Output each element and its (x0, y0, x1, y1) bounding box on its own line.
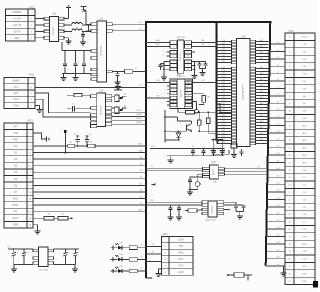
svg-text:P4.5: P4.5 (222, 43, 226, 45)
ground left pair below U11 (68, 39, 70, 43)
svg-text:POWER: POWER (12, 11, 21, 14)
ic U18 label (206, 219, 218, 222)
svg-text:AD4: AD4 (260, 138, 263, 141)
svg-text:STB: STB (13, 132, 18, 135)
svg-text:R8: R8 (207, 97, 209, 99)
svg-text:a2: a2 (277, 50, 279, 52)
svg-text:74HC573: 74HC573 (176, 37, 186, 39)
power flag +5V at U11 out (64, 6, 71, 19)
ic U12 body (97, 21, 106, 82)
svg-text:T2: T2 (152, 244, 154, 246)
svg-text:P3.2: P3.2 (222, 106, 226, 108)
wire U16 out 1 (225, 166, 267, 168)
ic U12 label (99, 18, 104, 21)
svg-text:AD2: AD2 (260, 72, 263, 75)
wire regulator input rail (8, 248, 33, 250)
capacitor C28 right of U14 (197, 62, 201, 69)
svg-text:RD: RD (303, 229, 307, 231)
svg-text:RX2: RX2 (150, 200, 154, 202)
svg-text:P3.2: P3.2 (222, 130, 226, 132)
svg-text:a28: a28 (277, 242, 280, 244)
connector JP13 label (27, 119, 33, 123)
bottom ground rail left (14, 263, 33, 265)
svg-text:P4.5: P4.5 (222, 115, 226, 117)
svg-text:ALE: ALE (303, 243, 308, 246)
svg-text:a8: a8 (277, 94, 279, 96)
ground JP15 (156, 269, 162, 277)
svg-text:LT1085CM: LT1085CM (101, 46, 103, 56)
wire U15 right loop to transistor (192, 102, 203, 114)
resistor for DS3 (129, 268, 146, 273)
svg-text:D1: D1 (140, 164, 142, 166)
svg-text:4: 4 (173, 93, 174, 95)
svg-text:1: 1 (173, 82, 174, 84)
svg-text:14: 14 (187, 65, 189, 67)
svg-text:P0.1: P0.1 (222, 55, 226, 57)
wire net KBCLK (112, 110, 146, 112)
wire net MSCLK (112, 118, 146, 120)
junction mark left margin (152, 184, 156, 186)
svg-text:U16: U16 (211, 161, 216, 164)
ic U13 right pins (105, 95, 111, 126)
svg-text:a22: a22 (277, 198, 280, 200)
ic U15 outline (170, 79, 193, 109)
wire U14 right lower group (192, 61, 207, 73)
regulator U17 label (39, 270, 49, 272)
wire U15 left stubs upper (164, 86, 170, 95)
wire U16 out 2 (225, 169, 267, 171)
svg-text:DAT: DAT (14, 92, 19, 95)
svg-text:CLK: CLK (14, 86, 19, 89)
svg-text:P1.4: P1.4 (222, 88, 226, 90)
ic U14 body (178, 40, 184, 73)
connector JP13 table (4, 123, 33, 228)
svg-text:13: 13 (187, 86, 189, 88)
svg-text:P5.0: P5.0 (222, 124, 226, 126)
ground U14 left (161, 75, 167, 81)
ic U15 label (176, 76, 185, 78)
capacitor C16 to ground (115, 71, 121, 85)
capacitor C29 right of U14 (203, 62, 207, 69)
wire JP12 pin4 bend to U13 (35, 99, 91, 117)
ground cap B left of U18 (176, 214, 182, 221)
svg-text:P7.6: P7.6 (222, 118, 226, 120)
svg-text:ACK: ACK (13, 197, 18, 200)
svg-text:AD0: AD0 (260, 78, 263, 81)
connector JP11 table (6, 9, 36, 41)
resistor R16 on row4 (88, 142, 95, 148)
svg-text:P7.6: P7.6 (222, 94, 226, 96)
capacitor C34 left of U18 (168, 204, 172, 213)
svg-text:COM: COM (178, 239, 184, 242)
ic U15 right pins (185, 81, 192, 107)
bottom ground rail right (54, 263, 76, 265)
led DS1 (111, 243, 130, 250)
connector JP12 table (4, 78, 35, 109)
crystal circuit below U16 (188, 174, 217, 189)
svg-text:DS275: DS275 (213, 168, 215, 175)
crystal cap bottom rail (213, 150, 229, 154)
svg-text:a10: a10 (277, 109, 280, 111)
ground decoupling row (168, 156, 174, 163)
svg-text:a15: a15 (277, 146, 280, 148)
wire JP13 row2 bend to ground stub (33, 133, 50, 142)
filter U11 label (52, 13, 57, 16)
wire U15 left in 2 (146, 96, 170, 98)
svg-text:AD1: AD1 (156, 43, 160, 46)
svg-text:a4: a4 (277, 64, 279, 66)
svg-text:+5V: +5V (7, 246, 11, 248)
svg-text:4: 4 (163, 54, 164, 56)
svg-text:5: 5 (173, 98, 174, 100)
svg-text:P0.1: P0.1 (222, 79, 226, 81)
svg-text:BUS: BUS (302, 37, 307, 39)
svg-text:a19: a19 (277, 175, 280, 177)
svg-text:P2.7: P2.7 (222, 49, 226, 51)
svg-text:a25: a25 (277, 220, 280, 222)
svg-text:P0.1: P0.1 (222, 103, 226, 105)
svg-text:R3: R3 (90, 142, 92, 144)
svg-text:AD0: AD0 (156, 39, 160, 42)
svg-text:GND: GND (13, 104, 19, 107)
svg-text:SLCT: SLCT (12, 217, 19, 220)
svg-text:13: 13 (187, 69, 189, 71)
filter U11 left pins (44, 17, 50, 39)
svg-text:CS1: CS1 (201, 80, 205, 82)
svg-text:7: 7 (173, 65, 174, 67)
svg-text:6: 6 (173, 101, 174, 103)
svg-text:10: 10 (187, 98, 189, 100)
svg-text:CTS: CTS (178, 265, 183, 268)
wire U14 right out 1 (192, 39, 217, 42)
resistor for DS2 (129, 256, 146, 261)
svg-text:6: 6 (173, 61, 174, 63)
svg-text:AFD: AFD (139, 150, 143, 153)
svg-text:GND: GND (302, 281, 307, 283)
svg-text:AD1: AD1 (260, 39, 263, 42)
ground JP16 bottom (281, 266, 287, 276)
wire U16 in 1 from divider (146, 166, 203, 168)
capacitor C27 under U14 left (159, 64, 165, 71)
resistor R8 right of U15 (192, 93, 209, 102)
capacitor C21 decoupling (74, 134, 80, 147)
ground JP12 pin5 (35, 105, 43, 112)
led DS2 (111, 254, 130, 261)
rail left of U12 middle (62, 42, 91, 51)
svg-text:74HC00: 74HC00 (176, 76, 185, 78)
ic U14 left pins (170, 41, 177, 71)
svg-text:AD3: AD3 (260, 57, 263, 60)
ic U16 right pins (218, 168, 224, 176)
svg-text:3: 3 (163, 51, 164, 53)
block divider vertical right (x=270..265 skewed) (266, 21, 271, 265)
wire JP11 pin5 to U11 (35, 37, 44, 39)
svg-text:XTAL: XTAL (213, 180, 217, 183)
wire U15 left stubs lower (167, 102, 171, 106)
svg-text:AD2: AD2 (260, 96, 263, 99)
svg-text:GND: GND (14, 37, 20, 40)
svg-text:a14: a14 (277, 138, 280, 140)
svg-text:2: 2 (173, 86, 174, 88)
ground rail left symbol (11, 265, 17, 273)
mcu bottom component box (231, 143, 237, 148)
wire U12 out A to divider (112, 22, 146, 24)
capacitor C24 electrolytic (22, 248, 29, 264)
capacitor C32 (211, 146, 215, 156)
svg-text:C2: C2 (74, 134, 76, 136)
wire mesh bottom (165, 139, 180, 141)
wire mesh out A (198, 130, 216, 132)
svg-text:MAX 202-1: MAX 202-1 (206, 219, 218, 222)
svg-text:a3: a3 (277, 57, 279, 59)
svg-text:RTS: RTS (178, 258, 183, 261)
svg-text:GND: GND (178, 271, 184, 274)
wire JP15 row4 to divider (146, 261, 161, 263)
svg-text:P5.0: P5.0 (222, 76, 226, 78)
svg-text:MAX202: MAX202 (211, 205, 214, 214)
wire U14 left stub 3 (163, 51, 170, 53)
mcu bottom ground (231, 148, 237, 158)
wire U14 right out 2 (192, 43, 217, 46)
wire U18 out stub (224, 209, 230, 211)
ic U13 left pins (91, 95, 97, 128)
net label +5V rail (7, 246, 11, 248)
svg-text:3: 3 (173, 89, 174, 91)
svg-text:a26: a26 (277, 227, 280, 229)
connector JP16 table (285, 33, 315, 285)
svg-text:D6: D6 (140, 196, 142, 198)
svg-text:D4: D4 (140, 183, 142, 185)
connector JP15 table (161, 236, 193, 275)
svg-text:+5V: +5V (303, 44, 307, 46)
ic U13 label (99, 90, 104, 93)
mcu U19 left pin boxes (232, 40, 237, 145)
ic U18 left pins (202, 201, 208, 215)
mcu U19 label (241, 36, 246, 39)
svg-text:2: 2 (173, 42, 174, 44)
svg-text:74HC573: 74HC573 (180, 52, 182, 61)
svg-text:P5.0: P5.0 (222, 100, 226, 102)
svg-text:AD0: AD0 (260, 102, 263, 105)
capacitor C33 (220, 146, 224, 156)
svg-text:C3: C3 (89, 134, 91, 136)
svg-text:16: 16 (187, 56, 189, 58)
svg-text:a1: a1 (277, 42, 279, 44)
capacitor C20 electrolytic vertical (60, 129, 66, 154)
svg-text:P3.2: P3.2 (222, 82, 226, 84)
svg-text:9: 9 (188, 101, 189, 103)
svg-text:RXD: RXD (178, 252, 183, 255)
ic U12 left pins (91, 23, 97, 81)
wire net KBDAT (112, 113, 146, 116)
svg-text:C6: C6 (202, 146, 204, 148)
connector JP15 label (162, 233, 168, 236)
svg-text:-12V IN: -12V IN (13, 30, 21, 33)
wire rail into U12 left upper (86, 24, 91, 31)
mcu left wires to divider (217, 40, 232, 144)
wire U14 left in 2 (146, 43, 170, 46)
svg-text:WR: WR (303, 236, 307, 238)
ground right of U18 (236, 212, 244, 220)
svg-text:JP16: JP16 (288, 30, 294, 33)
connector JP11 label (29, 5, 35, 9)
wire bundle JP13 rows 4-15 to divider (33, 150, 146, 212)
mcu U19 right pin boxes (250, 40, 256, 145)
svg-text:D5: D5 (140, 190, 142, 192)
wire U14 left in 1 (146, 39, 170, 42)
svg-text:18: 18 (187, 46, 189, 48)
svg-text:AD4: AD4 (260, 114, 263, 117)
wire U18 in 1 (146, 200, 202, 202)
capacitor CX1 below mcu (211, 140, 216, 156)
svg-text:BUSY: BUSY (12, 204, 19, 207)
pullup network R12 lower (112, 106, 127, 114)
decoupling rail top (150, 146, 224, 148)
wire mesh upper (165, 117, 178, 121)
ic U13 body (97, 93, 106, 127)
wire U12 pin to crystal Y1 (112, 71, 124, 73)
ground caps right of U14 (200, 69, 206, 76)
svg-text:AD0: AD0 (260, 126, 263, 129)
svg-text:A8: A8 (202, 39, 204, 42)
regulator U17 body (39, 247, 49, 267)
wire JP15 row3 to divider (146, 252, 161, 254)
svg-text:AD4: AD4 (260, 90, 263, 93)
svg-text:AD6: AD6 (260, 108, 263, 111)
svg-text:DS1: DS1 (119, 243, 123, 245)
capacitor C35 left of U18 (177, 204, 181, 213)
svg-text:AD6: AD6 (260, 132, 263, 135)
wire JP13 row4 with resistors to divider (33, 144, 146, 146)
capacitor C36 right of U18 (224, 202, 239, 211)
svg-text:TXD: TXD (178, 245, 183, 248)
mcu bottom capacitor (239, 149, 243, 156)
svg-text:AFD: AFD (13, 138, 18, 141)
wire JP11 pin3 to U11 (35, 24, 44, 26)
ground crystal (187, 190, 193, 196)
ic U16 left pins (203, 167, 210, 178)
svg-text:P3.2: P3.2 (222, 58, 226, 60)
inductor L1 (64, 21, 91, 26)
svg-text:a12: a12 (277, 124, 280, 126)
svg-text:W78E58B-40 PL: W78E58B-40 PL (243, 83, 245, 100)
ic U14 label (176, 37, 186, 39)
decoupling rail bottom (167, 155, 224, 157)
wire U14 right stub 3 (192, 51, 196, 53)
svg-text:AD5: AD5 (260, 51, 263, 54)
svg-text:a30: a30 (277, 257, 280, 259)
regulator U17 left pin (33, 249, 39, 264)
svg-text:4: 4 (173, 52, 174, 54)
resistor R14 (58, 213, 73, 220)
svg-text:P1.4: P1.4 (222, 40, 226, 42)
ground cap A left of U18 (168, 214, 174, 221)
ground below C13 rail (61, 74, 67, 81)
capacitor C23 electrolytic (12, 248, 19, 264)
svg-text:U13: U13 (99, 90, 104, 93)
capacitor C17 at U13 pin1 (67, 94, 91, 97)
svg-text:HT6542B: HT6542B (101, 105, 103, 114)
wire JP12 pin2 long to divider (35, 85, 146, 87)
svg-text:a27: a27 (277, 235, 280, 237)
svg-text:a6: a6 (277, 79, 279, 81)
capacitor C11 top rail (81, 7, 87, 26)
svg-text:D0: D0 (140, 157, 142, 159)
svg-text:a21: a21 (277, 190, 280, 192)
led DS3 (111, 266, 130, 273)
snubber bottom right (227, 273, 252, 281)
svg-text:8: 8 (173, 69, 174, 71)
wire JP11 pin4 to U11 (35, 30, 44, 32)
svg-text:D2: D2 (140, 170, 142, 172)
left rail of transistor mesh (164, 110, 166, 143)
svg-text:P2.7: P2.7 (222, 121, 226, 123)
resonator Y1 (124, 68, 146, 73)
resistor R20 left of U18 (185, 209, 202, 212)
svg-text:a9: a9 (277, 101, 279, 103)
svg-text:a23: a23 (277, 205, 280, 207)
wire U14 left stub 4 (163, 54, 170, 56)
ic U12 right pins (106, 23, 112, 73)
svg-text:D3: D3 (140, 177, 142, 179)
svg-text:P6.3: P6.3 (222, 133, 226, 135)
capacitor C25 electrolytic (63, 248, 70, 264)
svg-text:a11: a11 (277, 116, 280, 118)
ground at U11 pin8 (64, 38, 72, 44)
capacitor C37 right of U18 (224, 205, 246, 212)
text GND under U14 (177, 75, 182, 77)
svg-text:19: 19 (187, 42, 189, 44)
capacitor C19 above U13 (114, 85, 122, 91)
wire U15 left in 1 (146, 80, 170, 82)
capacitor C22 decoupling (85, 134, 91, 147)
ic U16 body (209, 165, 218, 179)
wire regulator output rail (54, 249, 80, 251)
ground below C14 rail (73, 74, 79, 81)
capacitor C30 (191, 146, 195, 156)
svg-text:P4.5: P4.5 (222, 91, 226, 93)
wire U14 left lower group to vertical (163, 62, 170, 75)
capacitor CX2 below mcu (220, 140, 225, 156)
svg-text:KB/MS: KB/MS (12, 80, 20, 83)
svg-text:P0.1: P0.1 (222, 127, 226, 129)
capacitor C12 to ground (80, 31, 86, 45)
svg-text:a24: a24 (277, 212, 280, 214)
wire net MSDAT (112, 121, 146, 124)
wire mcu EA bend (217, 103, 232, 113)
block divider vertical left (net bus x=146) (146, 21, 152, 278)
svg-text:+12V IN: +12V IN (12, 24, 21, 27)
svg-text:14: 14 (187, 82, 189, 84)
svg-text:MCLK: MCLK (136, 118, 142, 120)
svg-text:FILTER: FILTER (53, 27, 55, 35)
svg-text:P7.6: P7.6 (222, 46, 226, 48)
svg-text:11: 11 (187, 93, 189, 95)
diode D11 (176, 130, 181, 140)
svg-text:U17 7805: U17 7805 (39, 270, 49, 272)
resistor R15 on row4 (68, 142, 75, 148)
svg-text:KDAT: KDAT (136, 113, 142, 116)
svg-text:AD2: AD2 (260, 120, 263, 123)
wire JP11 pin2 to U11 (35, 18, 44, 20)
wire U15 right out A (192, 80, 216, 82)
svg-text:7: 7 (173, 105, 174, 107)
connector JP16 label (288, 30, 294, 33)
svg-text:P2.7: P2.7 (222, 73, 226, 75)
capacitor C26 (73, 248, 77, 264)
svg-text:JP15: JP15 (162, 233, 168, 236)
resistor R13 (44, 213, 58, 220)
